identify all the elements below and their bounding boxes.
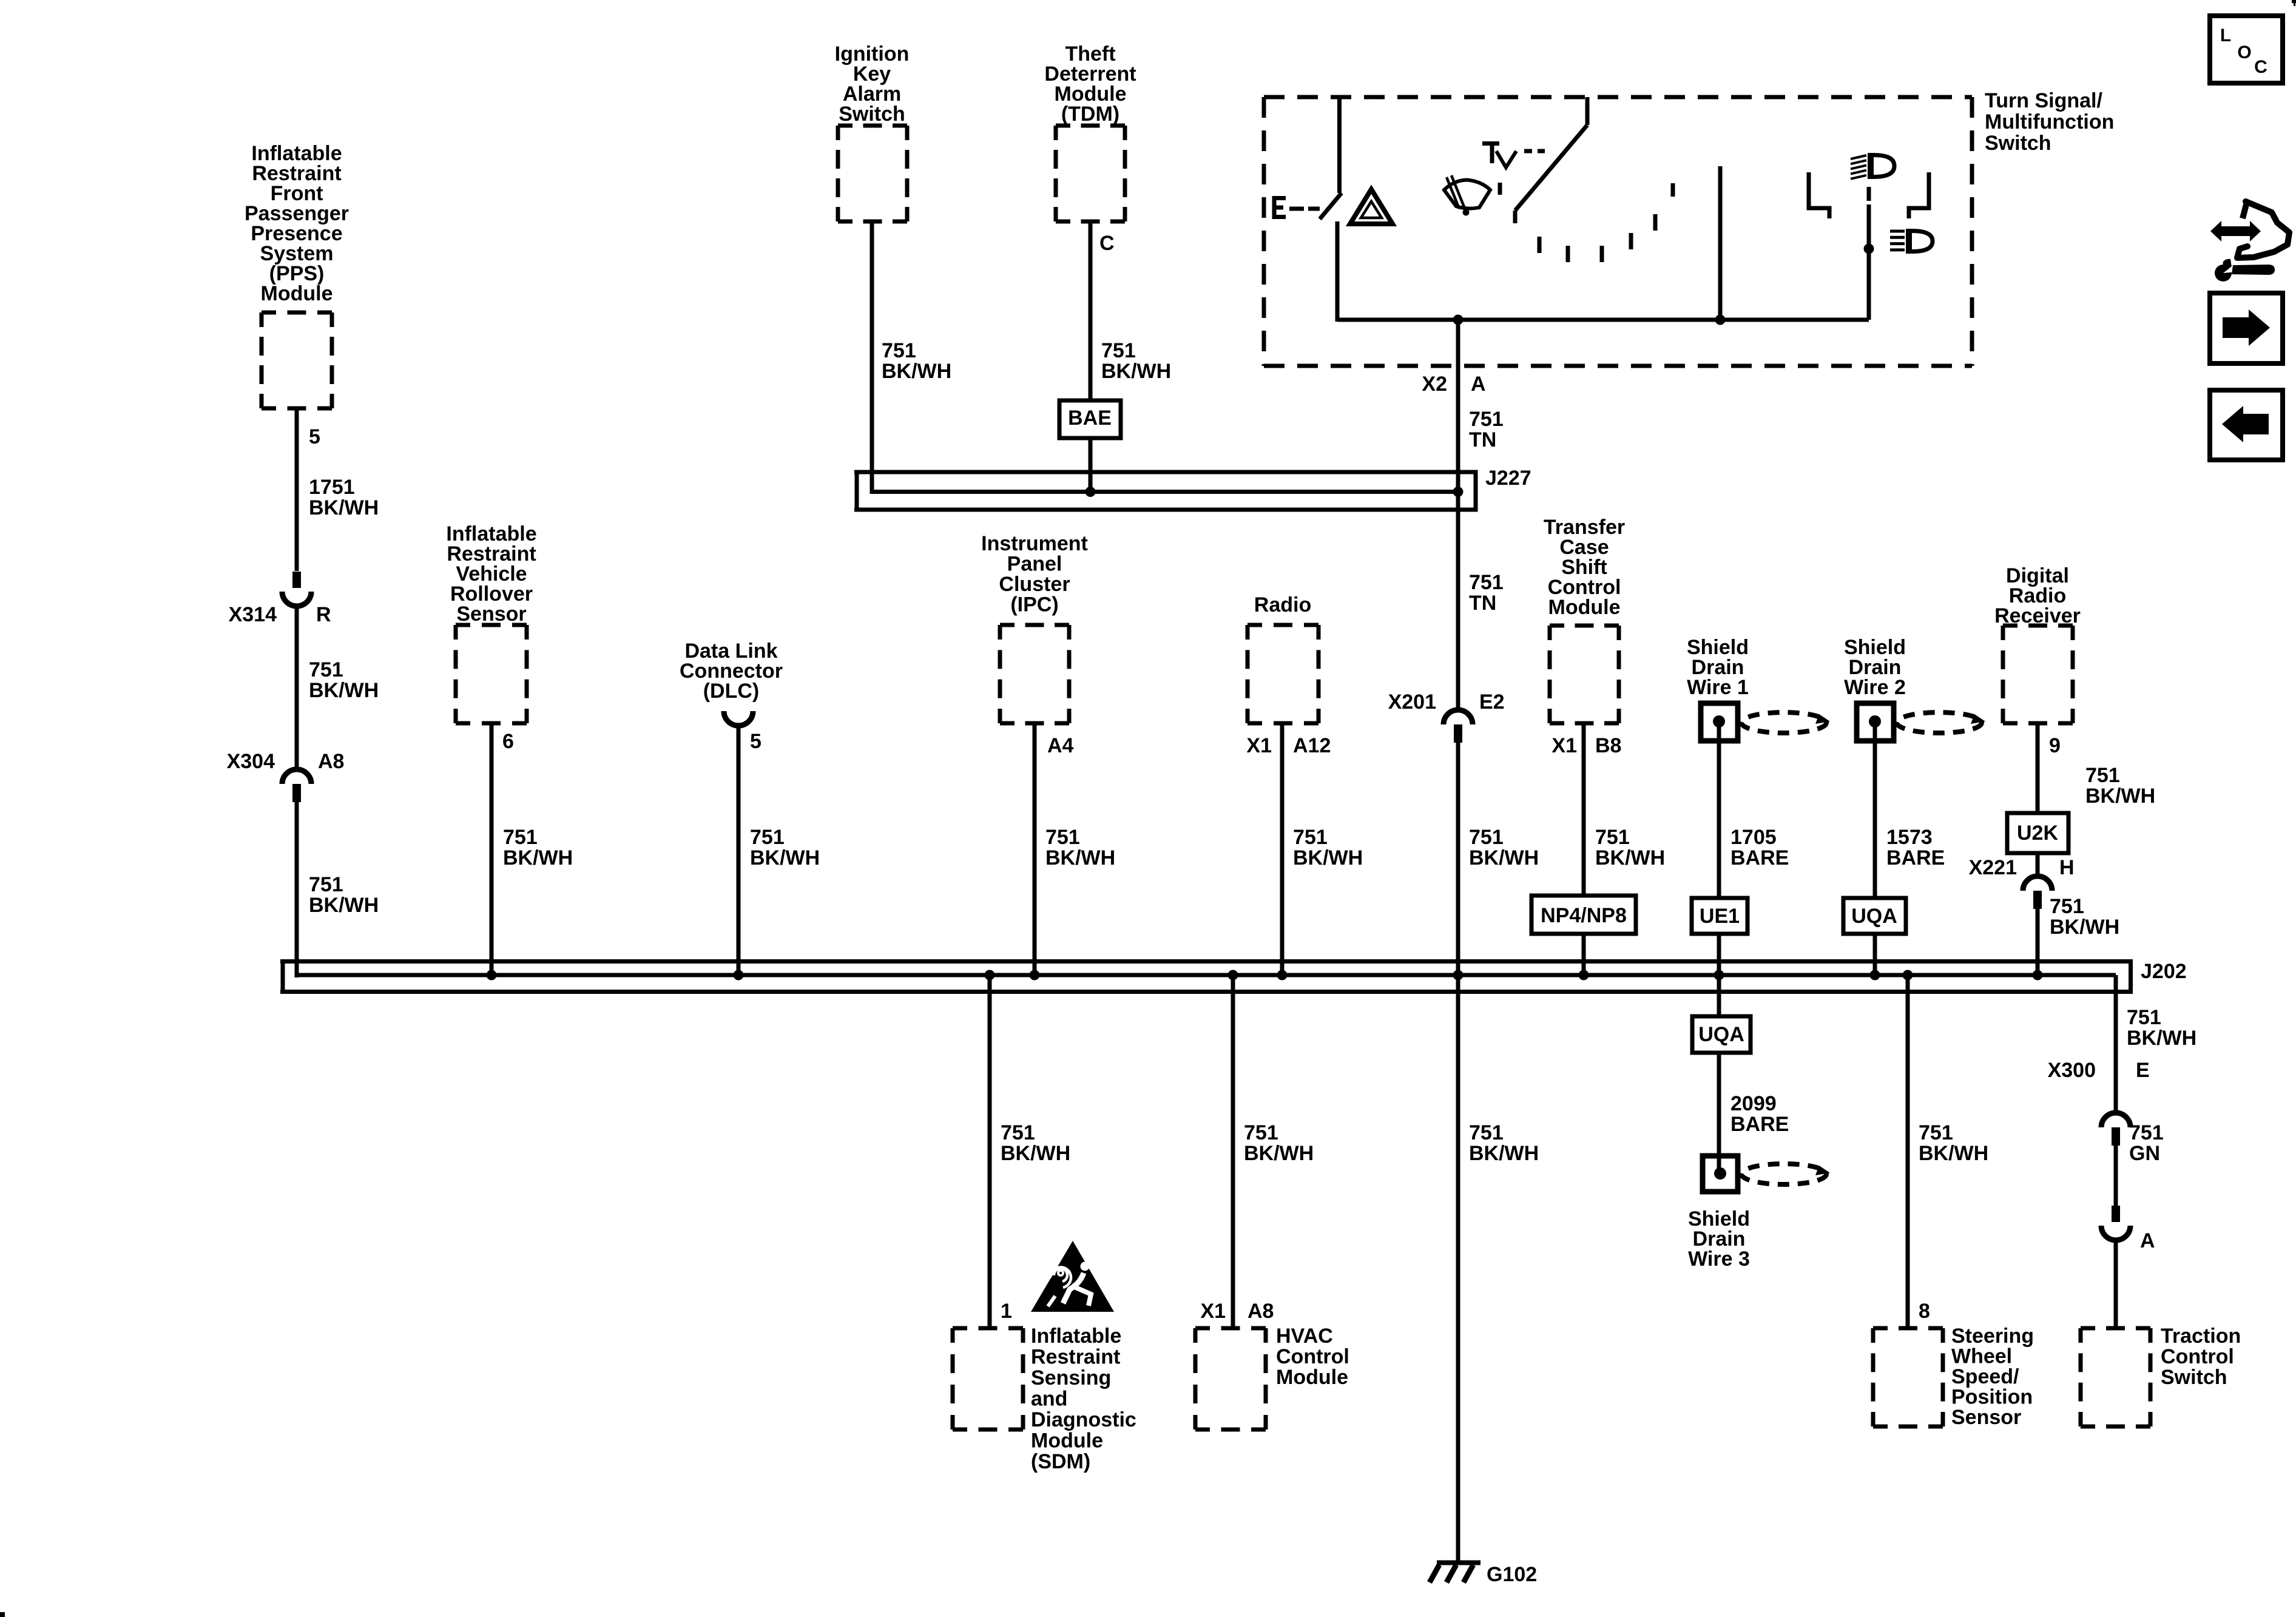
- svg-text:BK/WH: BK/WH: [1101, 360, 1171, 383]
- svg-text:Diagnostic: Diagnostic: [1031, 1408, 1136, 1431]
- svg-text:751: 751: [1469, 1121, 1504, 1144]
- svg-text:BK/WH: BK/WH: [1244, 1142, 1314, 1165]
- svg-text:751: 751: [1469, 408, 1504, 431]
- svg-text:751: 751: [1045, 826, 1080, 849]
- svg-text:751: 751: [309, 873, 343, 896]
- svg-text:BARE: BARE: [1886, 846, 1945, 869]
- svg-text:UE1: UE1: [1700, 905, 1740, 928]
- svg-text:751: 751: [2050, 895, 2084, 918]
- svg-text:6: 6: [502, 730, 514, 753]
- svg-text:Inflatable: Inflatable: [1031, 1325, 1121, 1348]
- svg-text:1: 1: [1001, 1300, 1012, 1323]
- svg-text:2099: 2099: [1730, 1092, 1777, 1115]
- svg-text:BK/WH: BK/WH: [1595, 846, 1665, 869]
- svg-text:8: 8: [1919, 1300, 1930, 1323]
- svg-text:(DLC): (DLC): [703, 680, 760, 703]
- svg-text:BK/WH: BK/WH: [2085, 785, 2155, 808]
- svg-text:(SDM): (SDM): [1031, 1450, 1090, 1473]
- svg-text:BK/WH: BK/WH: [1469, 846, 1539, 869]
- svg-text:Module: Module: [261, 282, 333, 305]
- svg-text:751: 751: [1293, 826, 1328, 849]
- svg-text:Control: Control: [1276, 1345, 1349, 1368]
- svg-text:(IPC): (IPC): [1010, 593, 1058, 616]
- svg-text:G102: G102: [1487, 1563, 1537, 1586]
- svg-text:BK/WH: BK/WH: [1293, 846, 1363, 869]
- svg-text:BK/WH: BK/WH: [503, 846, 573, 869]
- svg-text:BK/WH: BK/WH: [2050, 916, 2119, 939]
- svg-text:A4: A4: [1047, 734, 1074, 757]
- svg-text:L: L: [2220, 25, 2231, 46]
- svg-text:751: 751: [882, 339, 916, 362]
- svg-text:751: 751: [2085, 764, 2120, 787]
- svg-text:X1: X1: [1246, 734, 1272, 757]
- svg-text:751: 751: [1101, 339, 1136, 362]
- svg-text:751: 751: [309, 658, 343, 681]
- svg-text:C: C: [1099, 232, 1115, 255]
- svg-text:X221: X221: [1969, 856, 2017, 879]
- svg-text:A8: A8: [1248, 1300, 1274, 1323]
- svg-text:X300: X300: [2048, 1059, 2096, 1082]
- svg-text:BK/WH: BK/WH: [309, 496, 379, 519]
- svg-text:Panel: Panel: [1007, 553, 1062, 576]
- svg-text:Receiver: Receiver: [1994, 604, 2081, 627]
- svg-text:751: 751: [2129, 1121, 2164, 1144]
- svg-text:751: 751: [1919, 1121, 1953, 1144]
- svg-text:BK/WH: BK/WH: [309, 894, 379, 917]
- svg-text:BK/WH: BK/WH: [750, 846, 820, 869]
- svg-text:1751: 1751: [309, 476, 355, 499]
- svg-text:Turn Signal/: Turn Signal/: [1985, 89, 2102, 112]
- svg-text:Wheel: Wheel: [1951, 1345, 2012, 1368]
- svg-text:Speed/: Speed/: [1951, 1365, 2019, 1388]
- svg-text:A8: A8: [318, 750, 344, 773]
- svg-text:BK/WH: BK/WH: [1001, 1142, 1070, 1165]
- svg-text:751: 751: [503, 826, 538, 849]
- svg-text:C: C: [2254, 57, 2267, 77]
- svg-text:R: R: [316, 603, 331, 626]
- svg-text:751: 751: [750, 826, 785, 849]
- svg-text:BARE: BARE: [1730, 846, 1789, 869]
- svg-text:A12: A12: [1293, 734, 1331, 757]
- svg-text:Switch: Switch: [1985, 132, 2051, 155]
- svg-text:O: O: [2237, 42, 2251, 62]
- svg-text:X314: X314: [229, 603, 277, 626]
- svg-text:E2: E2: [1479, 690, 1505, 714]
- svg-text:Steering: Steering: [1951, 1325, 2034, 1348]
- svg-text:5: 5: [309, 425, 320, 448]
- svg-text:NP4/NP8: NP4/NP8: [1541, 904, 1627, 927]
- svg-text:BK/WH: BK/WH: [882, 360, 951, 383]
- svg-text:BK/WH: BK/WH: [1045, 846, 1115, 869]
- svg-text:X1: X1: [1200, 1300, 1226, 1323]
- svg-text:B8: B8: [1595, 734, 1621, 757]
- svg-text:X1: X1: [1551, 734, 1577, 757]
- svg-text:Wire 3: Wire 3: [1688, 1247, 1750, 1271]
- svg-text:BK/WH: BK/WH: [2127, 1027, 2196, 1050]
- svg-text:751: 751: [2127, 1006, 2161, 1029]
- svg-text:UQA: UQA: [1698, 1023, 1744, 1046]
- svg-text:5: 5: [750, 730, 761, 753]
- svg-text:TN: TN: [1469, 428, 1496, 451]
- svg-text:UQA: UQA: [1851, 905, 1897, 928]
- svg-text:1573: 1573: [1886, 826, 1933, 849]
- svg-text:U2K: U2K: [2017, 822, 2058, 845]
- svg-text:Cluster: Cluster: [999, 573, 1070, 596]
- svg-text:751: 751: [1469, 826, 1504, 849]
- svg-text:Radio: Radio: [1254, 593, 1311, 616]
- svg-text:1705: 1705: [1730, 826, 1777, 849]
- svg-text:Switch: Switch: [839, 103, 905, 126]
- svg-text:BK/WH: BK/WH: [1469, 1142, 1539, 1165]
- svg-text:Module: Module: [1548, 596, 1621, 619]
- svg-text:Traction: Traction: [2161, 1325, 2241, 1348]
- svg-text:E: E: [2136, 1059, 2150, 1082]
- svg-text:Sensing: Sensing: [1031, 1366, 1111, 1389]
- svg-text:Control: Control: [2161, 1345, 2234, 1368]
- svg-text:Instrument: Instrument: [981, 532, 1088, 555]
- svg-text:HVAC: HVAC: [1276, 1325, 1333, 1348]
- svg-text:J227: J227: [1485, 467, 1531, 490]
- svg-text:BAE: BAE: [1068, 407, 1112, 430]
- svg-text:Wire 2: Wire 2: [1844, 676, 1906, 699]
- svg-text:(TDM): (TDM): [1061, 103, 1119, 126]
- svg-text:TN: TN: [1469, 592, 1496, 615]
- svg-text:751: 751: [1001, 1121, 1035, 1144]
- svg-text:751: 751: [1244, 1121, 1278, 1144]
- svg-text:X2: X2: [1422, 373, 1447, 396]
- svg-text:751: 751: [1469, 571, 1504, 594]
- svg-text:Sensor: Sensor: [1951, 1406, 2021, 1429]
- svg-text:Multifunction: Multifunction: [1985, 110, 2114, 133]
- svg-text:Module: Module: [1031, 1430, 1103, 1453]
- svg-text:A: A: [2140, 1229, 2155, 1252]
- svg-text:Module: Module: [1276, 1366, 1348, 1389]
- svg-text:J202: J202: [2141, 960, 2187, 983]
- svg-text:751: 751: [1595, 826, 1630, 849]
- svg-text:X304: X304: [227, 750, 275, 773]
- svg-text:X201: X201: [1388, 690, 1436, 714]
- svg-text:Sensor: Sensor: [456, 603, 526, 626]
- svg-text:GN: GN: [2129, 1142, 2160, 1165]
- svg-text:Restraint: Restraint: [1031, 1346, 1120, 1369]
- svg-text:9: 9: [2049, 734, 2061, 757]
- svg-text:BK/WH: BK/WH: [309, 679, 379, 702]
- svg-text:BK/WH: BK/WH: [1919, 1142, 1988, 1165]
- svg-text:H: H: [2059, 856, 2075, 879]
- svg-text:A: A: [1471, 373, 1486, 396]
- svg-text:BARE: BARE: [1730, 1113, 1789, 1136]
- svg-text:Position: Position: [1951, 1386, 2033, 1409]
- svg-text:Switch: Switch: [2161, 1366, 2227, 1389]
- svg-text:and: and: [1031, 1388, 1067, 1411]
- svg-text:Wire 1: Wire 1: [1687, 676, 1749, 699]
